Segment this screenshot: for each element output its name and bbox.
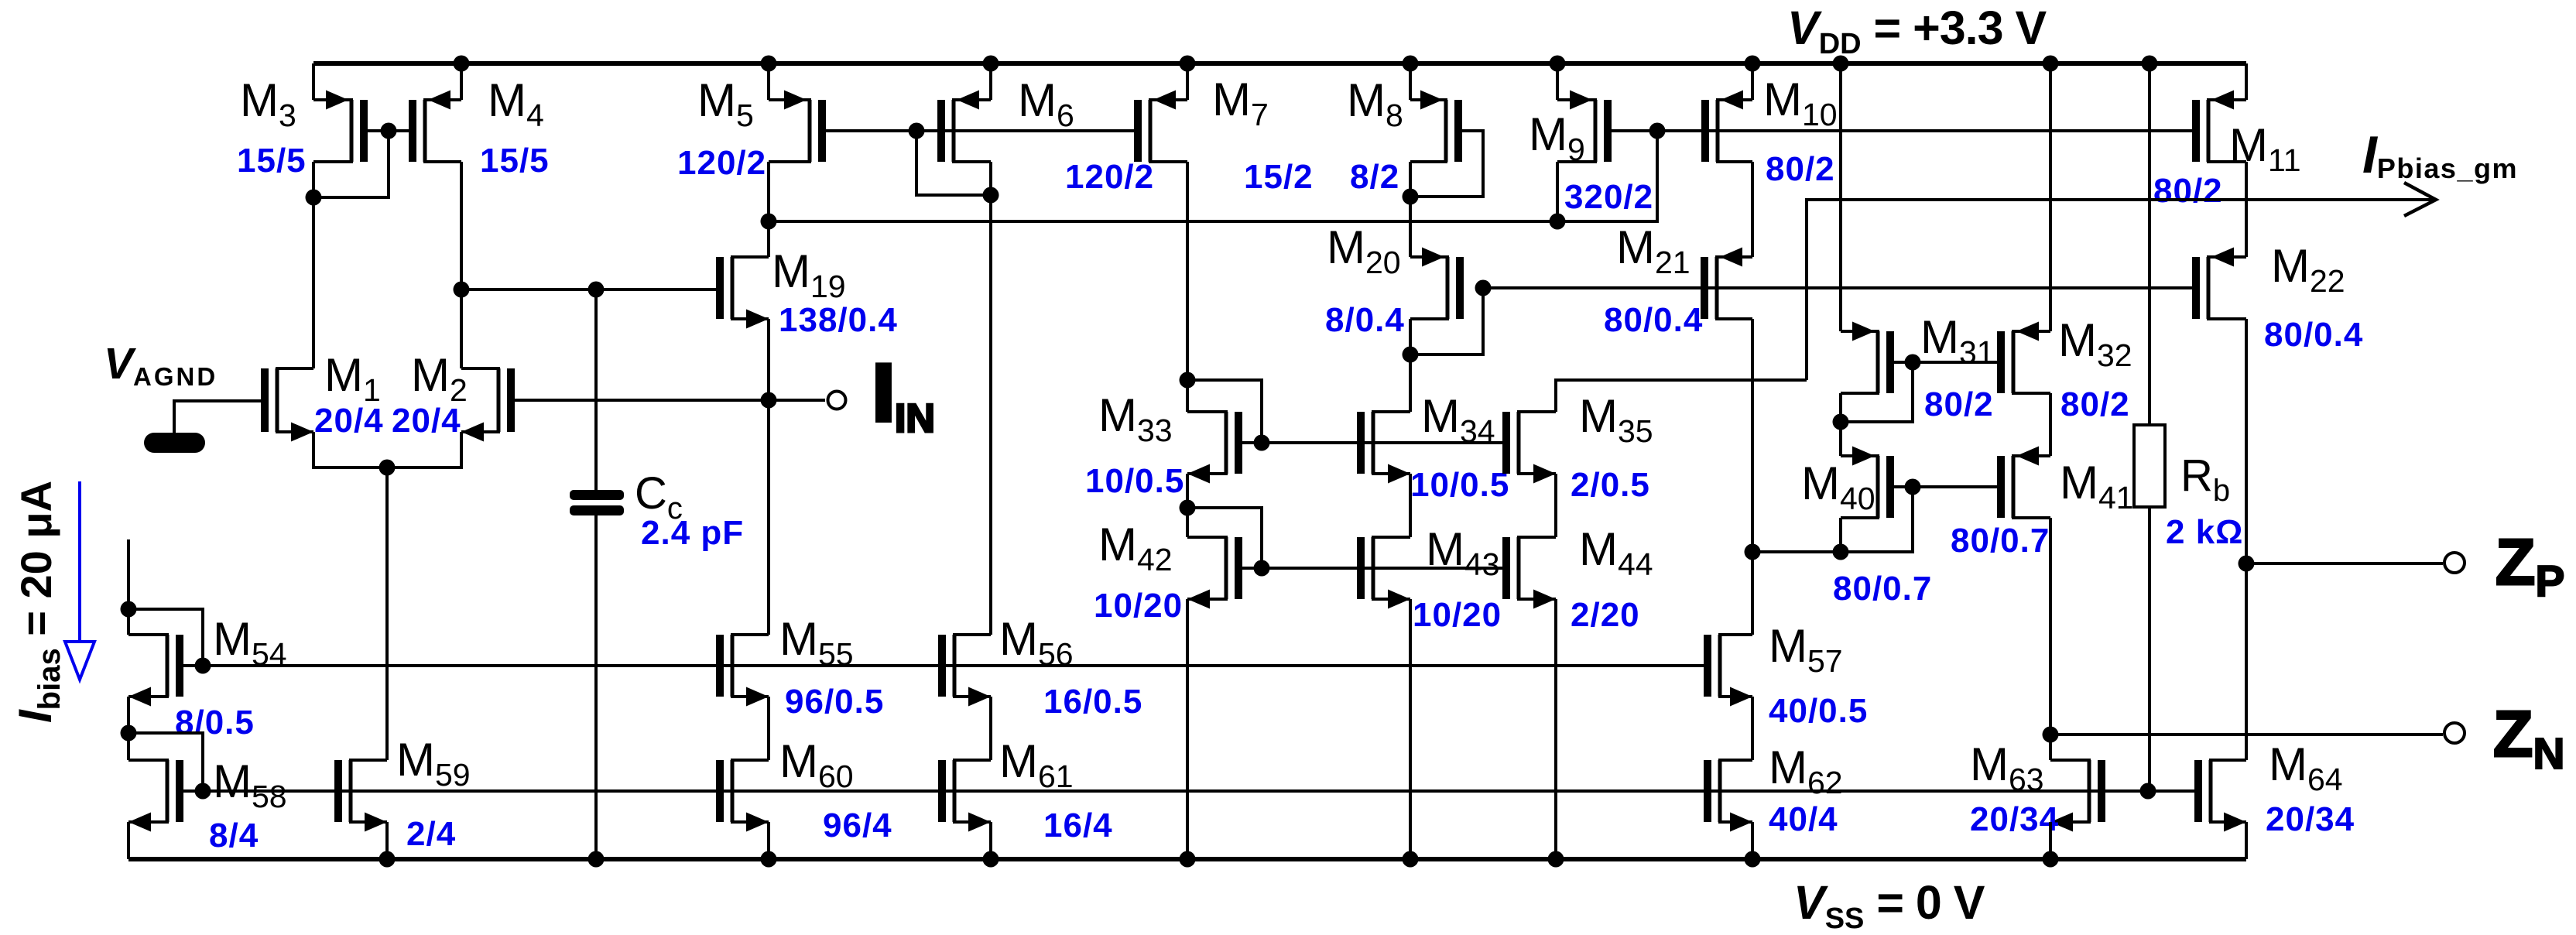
node VSS-M43 xyxy=(1403,851,1419,868)
wire gate line M33-M35 xyxy=(1262,441,1503,444)
wire M4 drain to M2 drain xyxy=(460,162,463,368)
wire Rb bottom lead xyxy=(2148,507,2151,791)
node VDD-M9 xyxy=(1550,56,1566,72)
node M42 gate node xyxy=(1254,560,1270,577)
node VDD-M32 xyxy=(2043,56,2059,72)
wire M9 drain xyxy=(1556,162,1559,221)
wire tail to M59 drain xyxy=(385,467,389,760)
svg-text:20/4: 20/4 xyxy=(314,402,384,440)
svg-text:120/2: 120/2 xyxy=(677,144,766,182)
svg-text:96/0.5: 96/0.5 xyxy=(785,683,884,721)
wire M31-M40 link xyxy=(1839,422,1842,456)
transistor M32 xyxy=(1997,322,2050,394)
wire M57 source to M62 xyxy=(1751,697,1754,760)
transistor M34 xyxy=(1357,412,1410,484)
svg-text:8/4: 8/4 xyxy=(209,817,259,855)
transistor M57 xyxy=(1704,635,1752,707)
wire VDD to M11 source xyxy=(2245,63,2248,100)
transistor M11 xyxy=(2192,91,2246,163)
wire M33 drain lead xyxy=(1186,380,1189,412)
node M31 drain node xyxy=(1833,414,1849,430)
svg-text:15/5: 15/5 xyxy=(237,142,307,180)
terminal ZN xyxy=(2444,723,2465,743)
wire M41 drain to ZN xyxy=(2049,518,2052,760)
svg-text:8/2: 8/2 xyxy=(1350,158,1399,196)
node VDD-M6 xyxy=(983,56,999,72)
svg-text:20/34: 20/34 xyxy=(1970,800,2059,838)
node M20 gate node xyxy=(1475,280,1492,296)
svg-text:96/4: 96/4 xyxy=(823,807,892,844)
svg-text:120/2: 120/2 xyxy=(1065,158,1154,196)
wire M35 source to M44 xyxy=(1554,474,1557,537)
node Cc tap xyxy=(588,282,605,298)
wire Ipbias_gm line xyxy=(1807,200,2434,380)
wire M58 drain lead xyxy=(127,733,130,760)
svg-text:80/2: 80/2 xyxy=(1766,150,1835,188)
transistor M60 xyxy=(716,760,769,832)
wire M40 drain xyxy=(1839,518,1842,552)
arrow Ibias line xyxy=(78,481,81,642)
wire M56 source to M61 xyxy=(989,697,992,760)
node VDD-M10 xyxy=(1745,56,1761,72)
wire VDD rail xyxy=(313,61,2246,66)
transistor M21 xyxy=(1701,248,1752,320)
wire M31 drain xyxy=(1839,393,1842,422)
wire gate line M20-M22 xyxy=(1483,286,2193,289)
wire Cc bottom lead xyxy=(594,512,598,859)
transistor M35 xyxy=(1502,412,1556,484)
node VDD-M31 xyxy=(1833,56,1849,72)
transistor M19 xyxy=(716,257,769,329)
wire M6 diode jog xyxy=(916,131,991,195)
wire M54 source xyxy=(127,697,130,733)
node tail node xyxy=(379,460,396,476)
transistor M2 xyxy=(461,368,515,442)
transistor M10 xyxy=(1701,91,1752,163)
transistor M56 xyxy=(938,635,991,707)
node VSS-M59 xyxy=(379,851,396,868)
wire VAGND lead xyxy=(174,401,262,433)
wire M31 gate tie xyxy=(1841,362,1913,422)
wire gate line M54-M57 xyxy=(203,664,1704,667)
node IIN node xyxy=(761,392,777,409)
wire M20 gate loop xyxy=(1410,288,1483,354)
transistor M62 xyxy=(1704,760,1752,832)
wire gate line M42-M44 xyxy=(1262,567,1503,570)
wire M21 drain xyxy=(1751,319,1754,552)
wire gate line M40-M41 xyxy=(1913,485,1998,488)
svg-text:2 kΩ: 2 kΩ xyxy=(2166,513,2243,551)
svg-text:10/0.5: 10/0.5 xyxy=(1410,466,1509,504)
node VSS-M62 xyxy=(1745,851,1761,868)
analog ground symbol xyxy=(144,433,205,453)
wire gate line M58-M64 xyxy=(203,789,2195,793)
wire gate line M9-M11 xyxy=(1612,129,2193,132)
wire M43 source to VSS xyxy=(1409,599,1412,859)
svg-text:2/0.5: 2/0.5 xyxy=(1571,466,1650,504)
svg-text:8/0.5: 8/0.5 xyxy=(175,704,255,741)
transistor M31 xyxy=(1841,322,1913,394)
wire M59 source to VSS xyxy=(385,822,389,859)
wire M19 source to IIN xyxy=(767,319,770,400)
svg-text:16/0.5: 16/0.5 xyxy=(1043,683,1142,721)
wire VDD to M4 source xyxy=(460,63,463,100)
svg-text:15/2: 15/2 xyxy=(1244,158,1314,196)
wire ZP line xyxy=(2246,562,2443,565)
transistor M64 xyxy=(2194,760,2246,832)
svg-text:2/20: 2/20 xyxy=(1571,596,1640,634)
wire M22 source from Ipbias xyxy=(2245,200,2248,257)
svg-text:16/4: 16/4 xyxy=(1043,807,1113,844)
node VSS-M42 xyxy=(1180,851,1196,868)
transistor M42 xyxy=(1187,537,1262,609)
node M33-M42 node xyxy=(1180,500,1196,516)
node VSS-M63 xyxy=(2043,851,2059,868)
wire M11 drain to Ipbias line xyxy=(2245,162,2248,200)
wire M55 source to M60 xyxy=(767,697,770,760)
transistor M59 xyxy=(334,760,387,832)
node ZP node xyxy=(2239,556,2255,572)
wire VDD to M6 source xyxy=(989,63,992,100)
svg-text:10/20: 10/20 xyxy=(1094,587,1183,625)
transistor M20 xyxy=(1410,248,1464,320)
wire M40 gate tie xyxy=(1752,487,1913,552)
wire M10 drain to M21 source xyxy=(1751,162,1754,257)
wire M5 drain xyxy=(767,162,770,221)
transistor M44 xyxy=(1502,537,1556,609)
node VDD-M8 xyxy=(1403,56,1419,72)
node VSS-Cc xyxy=(588,851,605,868)
transistor M55 xyxy=(716,635,769,707)
wire IIN to M55 drain xyxy=(767,400,770,635)
wire M58 gate tie xyxy=(128,733,203,791)
wire M3 drain xyxy=(312,162,315,197)
node M33 gate node xyxy=(1254,435,1270,451)
transistor M63 xyxy=(2050,760,2105,832)
transistor M54 xyxy=(128,635,203,707)
svg-text:10/20: 10/20 xyxy=(1413,596,1502,634)
wire M42 source to VSS xyxy=(1186,599,1189,859)
wire ZN to M63 drain xyxy=(2049,759,2052,762)
node M54 drain node xyxy=(121,601,137,618)
node M40 drain node xyxy=(1833,544,1849,560)
svg-text:8/0.4: 8/0.4 xyxy=(1325,301,1405,339)
wire M54 drain lead xyxy=(127,609,130,635)
node VSS-M60 xyxy=(761,851,777,868)
node M8 drain-gate xyxy=(1403,189,1419,205)
wire VDD to M3 source xyxy=(312,63,315,100)
wire Ipbias mirror rail xyxy=(769,131,1657,221)
wire M63 gate stub xyxy=(2105,789,2148,793)
wire M32 drain to M41 xyxy=(2049,393,2052,456)
transistor M58 xyxy=(128,760,203,832)
node M40 gate node xyxy=(1905,479,1921,495)
terminal ZP xyxy=(2444,553,2465,573)
wire Ibias wire xyxy=(127,539,130,609)
wire VDD to M5 source xyxy=(767,63,770,100)
wire M8 gate loop xyxy=(1410,131,1483,197)
svg-text:VSS = 0 V: VSS = 0 V xyxy=(1793,876,1985,935)
wire gate line M31-M32 xyxy=(1913,361,1998,364)
arrow Ibias head xyxy=(65,642,94,680)
transistor M5 xyxy=(769,91,826,163)
wire M6 drain to M56 xyxy=(989,162,992,635)
wire Cc top lead xyxy=(594,289,598,494)
transistor M3 xyxy=(313,91,368,163)
svg-text:15/5: 15/5 xyxy=(480,142,550,180)
wire M22 drain to ZP xyxy=(2245,319,2248,760)
wire M33 gate tie xyxy=(1187,380,1262,443)
svg-text:80/2: 80/2 xyxy=(1924,385,1994,423)
node VSS-M44 xyxy=(1548,851,1564,868)
transistor M4 xyxy=(409,91,461,163)
node M31 gate node xyxy=(1905,354,1921,371)
wire M62 source to VSS xyxy=(1751,822,1754,859)
node M4-M2 drain node xyxy=(454,282,470,298)
transistor M22 xyxy=(2192,248,2246,320)
wire mirror out to M19 gate xyxy=(461,288,717,291)
wire M1 source xyxy=(313,432,461,467)
svg-text:80/0.7: 80/0.7 xyxy=(1951,522,2050,560)
svg-text:80/0.4: 80/0.4 xyxy=(2264,316,2363,354)
capacitor Cc top plate xyxy=(570,490,624,500)
svg-text:20/34: 20/34 xyxy=(2266,800,2355,838)
wire M19 drain xyxy=(767,221,770,257)
wire VDD to M8 source xyxy=(1409,63,1412,100)
wire M34 drain xyxy=(1409,354,1412,412)
node M9 gate tap xyxy=(1649,123,1666,139)
wire M35 drain to Ipbias xyxy=(1556,380,1807,412)
node VDD-M4 xyxy=(454,56,470,72)
capacitor Cc bottom plate xyxy=(570,505,624,515)
wire VDD to M7 source xyxy=(1186,63,1189,100)
wire M64 source to VSS xyxy=(2245,822,2248,859)
svg-text:10/0.5: 10/0.5 xyxy=(1085,462,1184,500)
transistor M43 xyxy=(1357,537,1410,609)
wire M63 source to VSS xyxy=(2049,822,2052,859)
transistor M7 xyxy=(1134,91,1187,163)
node M7-M33 node xyxy=(1180,372,1196,389)
transistor M1 xyxy=(261,368,313,442)
wire M58 source to VSS xyxy=(127,822,130,859)
node M9 drain node xyxy=(1550,214,1566,230)
node VDD-M5 xyxy=(761,56,777,72)
transistor M61 xyxy=(938,760,991,832)
wire M8 drain to M20 source xyxy=(1409,162,1412,257)
wire IIN stub xyxy=(769,399,825,402)
wire M3 gate loop xyxy=(313,131,389,197)
svg-text:80/0.4: 80/0.4 xyxy=(1604,301,1703,339)
wire gate line M5-M7 xyxy=(826,129,1134,132)
svg-text:20/4: 20/4 xyxy=(392,402,461,440)
wire M2 gate to IIN xyxy=(515,399,769,402)
node M58 gate node xyxy=(195,783,211,800)
node M58 drain node xyxy=(121,725,137,741)
svg-text:80/2: 80/2 xyxy=(2060,385,2130,423)
svg-text:2/4: 2/4 xyxy=(406,815,456,853)
transistor M40 xyxy=(1841,447,1913,519)
node M20 drain node xyxy=(1403,347,1419,363)
arrow Ipbias_gm xyxy=(2404,183,2436,216)
wire VDD to M31 source xyxy=(1839,63,1842,331)
svg-text:80/0.7: 80/0.7 xyxy=(1833,570,1932,608)
transistor M9 xyxy=(1557,91,1612,163)
wire VSS rail xyxy=(128,857,2246,861)
resistor Rb xyxy=(2134,425,2165,507)
transistor M33 xyxy=(1187,412,1262,484)
node ZN node xyxy=(2043,727,2059,743)
wire M1 drain to M3 xyxy=(312,197,315,368)
wire M44 source to VSS xyxy=(1554,599,1557,859)
wire VDD to M9 source xyxy=(1556,63,1559,100)
transistor M8 xyxy=(1410,91,1462,163)
wire M61 source to VSS xyxy=(989,822,992,859)
wire M33 source xyxy=(1186,474,1189,508)
wire M60 source to VSS xyxy=(767,822,770,859)
wire M54 gate tie xyxy=(128,609,203,666)
svg-text:2.4 pF: 2.4 pF xyxy=(641,514,744,552)
wire M42 gate tie xyxy=(1187,508,1262,568)
node M6 drain node xyxy=(983,187,999,204)
node M21-M57 node xyxy=(1745,544,1761,560)
svg-text:80/2: 80/2 xyxy=(2153,172,2223,210)
node M3 drain-gate xyxy=(306,190,322,206)
wire VDD to M10 source xyxy=(1751,63,1754,100)
node VDD-Rb xyxy=(2142,56,2158,72)
wire Rb top lead xyxy=(2148,63,2151,425)
node M3-M4 gate xyxy=(381,123,397,139)
node VDD-M7 xyxy=(1180,56,1196,72)
node M54 gate node xyxy=(195,658,211,674)
svg-text:40/4: 40/4 xyxy=(1769,800,1838,838)
node M5-M6 gate node xyxy=(909,123,925,139)
terminal IIN xyxy=(828,392,846,409)
wire VDD to M32 source xyxy=(2049,63,2052,331)
transistor M6 xyxy=(937,91,991,163)
wire M3-M4 gate link xyxy=(368,129,409,132)
transistor M41 xyxy=(1997,447,2050,519)
wire M42 drain lead xyxy=(1186,508,1189,537)
wire ZN line xyxy=(2050,733,2443,736)
wire M7 drain xyxy=(1186,162,1189,380)
node VSS-M61 xyxy=(983,851,999,868)
svg-text:40/0.5: 40/0.5 xyxy=(1769,692,1868,730)
node M5 drain node xyxy=(761,214,777,230)
wire M20 drain xyxy=(1409,319,1412,354)
wire M34 source to M43 xyxy=(1409,474,1412,537)
wire M57 drain xyxy=(1751,552,1754,635)
svg-text:138/0.4: 138/0.4 xyxy=(779,301,898,339)
node Rb-M63-M64 gate xyxy=(2140,783,2156,800)
svg-text:320/2: 320/2 xyxy=(1564,178,1653,216)
